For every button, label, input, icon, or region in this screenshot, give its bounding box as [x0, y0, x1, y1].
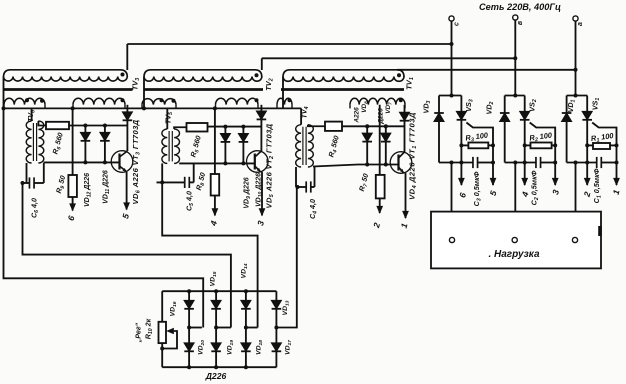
diode VD_19 (bottom): [211, 343, 221, 351]
resistor R_6 560: [46, 122, 69, 129]
label TV2: [264, 78, 275, 90]
svg-text:Сеть 220В, 400Гц: Сеть 220В, 400Гц: [479, 2, 561, 12]
wire gate resistor right VS2 block: [552, 144, 556, 146]
resistor R_3 100: [468, 143, 488, 149]
node branch 2 mid: [214, 326, 218, 330]
transformer ТV4: [296, 125, 314, 167]
wire top bar VS1 block: [567, 95, 588, 97]
node branch 2 top: [214, 289, 218, 293]
label VD_1: [566, 99, 577, 112]
wire stub 5 VS3 block: [490, 163, 497, 187]
label R_5 560: [188, 135, 204, 159]
node stub 2 VS1 block: [585, 161, 589, 165]
wire base m1: [44, 161, 120, 163]
wire VD_10 branch: [242, 127, 244, 164]
label output 3: [255, 219, 266, 226]
node VS2 block resistor right: [553, 143, 557, 147]
label Нагрузка: [488, 249, 540, 260]
wire feed vertical m3: [379, 105, 381, 175]
label VD_8 А226: [354, 101, 369, 124]
label VD_18: [256, 340, 265, 355]
label output 5: [120, 212, 131, 219]
core TV3: [3, 88, 133, 91]
wire route B (m2 cap to network branch3): [162, 182, 257, 327]
wire cathode branch VS3 block: [460, 96, 462, 163]
node VD_9 top: [223, 125, 227, 129]
diode VD_7|Д226: [381, 133, 391, 141]
label VD_20: [198, 340, 207, 355]
wire VD_9 branch: [224, 127, 226, 164]
transformer ТV6: [26, 121, 44, 163]
node VD_10 bottom: [241, 161, 245, 165]
wire stub 2 VS1 block: [584, 163, 591, 187]
wire ТV6 left coil to rail: [31, 108, 33, 121]
wire load drop VS1 block: [575, 163, 577, 238]
transformer ТV5: [162, 129, 180, 163]
node VD_10 top: [241, 125, 245, 129]
resistor R_8 50: [211, 174, 220, 196]
label R_4 560: [326, 135, 342, 159]
label VD_12 Д226: [84, 173, 93, 207]
diode VD_1: [562, 113, 572, 121]
wire ТV5 left coil to rail: [166, 108, 168, 129]
TV3 primary polarity dot: [121, 73, 125, 77]
TV1 primary polarity dot: [397, 73, 401, 77]
svg-text:Д226: Д226: [378, 108, 385, 125]
wire gate VS1 block: [592, 123, 616, 146]
node VS2 block resistor left: [523, 143, 527, 147]
transformer TV3 primary winding: [4, 70, 128, 81]
TV3 secondary winding a: [4, 98, 45, 108]
node branch 1 bottom: [187, 365, 191, 369]
wire emitter output 3 m2: [259, 172, 266, 217]
label VD_14: [241, 263, 250, 278]
wire capacitor run m1: [23, 182, 44, 184]
wire ТV5 right coil to R_5: [174, 127, 186, 129]
node m1 cap junction: [21, 181, 25, 185]
diode VD_2: [500, 113, 510, 121]
wire diode row top m1: [69, 125, 127, 127]
label R_1 100: [590, 131, 615, 145]
label VD_19: [227, 340, 236, 355]
wire output 6 m1: [69, 197, 76, 212]
node phase junction VS1 block: [574, 94, 578, 98]
label output 2: [371, 221, 382, 229]
wire anode branch VS2 block: [504, 96, 506, 163]
wire output 4 m2: [212, 196, 219, 217]
capacitor С_1 0,5мкФ: [597, 157, 602, 168]
wire riser m1: [43, 163, 45, 183]
label VD_9 Д226: [244, 177, 253, 208]
node VD_11 top: [103, 124, 107, 128]
wire diode row top m3: [342, 125, 405, 127]
wire diode row top m2: [208, 126, 262, 128]
R10 wiper: [162, 328, 177, 349]
wire route D (m3 cap to network branch4): [276, 187, 296, 328]
label VD_3: [422, 100, 433, 113]
label VD_2: [485, 101, 496, 114]
node branch 3 bottom: [244, 365, 248, 369]
node VD_11 bottom: [103, 160, 107, 164]
label stub 6: [457, 191, 468, 198]
capacitor С_6 4,0: [29, 177, 34, 188]
diode VD5 (collector): [257, 111, 267, 119]
TV1 secondary a polarity dot: [288, 98, 292, 102]
label ТV4: [300, 106, 311, 118]
wire gate VS3 block: [466, 123, 493, 146]
wire stub 3 VS2 block: [552, 163, 559, 187]
label VS_2: [528, 99, 539, 112]
svg-text:а: а: [577, 22, 584, 26]
node junction A: [574, 68, 578, 72]
load terminal C: [449, 237, 454, 242]
label VD_7 Д226: [378, 102, 393, 125]
wire anode branch VS1 block: [566, 96, 568, 163]
wire bottom bar VS2 block: [505, 162, 556, 164]
wire route C (TV3 primary left to network branch1): [4, 77, 204, 328]
wire collector branch m2: [260, 105, 262, 151]
label С_6 4,0: [30, 198, 41, 218]
resistor R_7 50: [376, 175, 385, 199]
wire network left edge upper: [161, 291, 163, 322]
capacitor С_5 4,0: [185, 177, 190, 188]
label VD_13: [282, 300, 291, 315]
wire capacitor run m2: [157, 181, 194, 183]
label VS_3: [464, 99, 475, 112]
node stub 1 VS1 block: [615, 161, 619, 165]
label VD_11 Д226: [103, 170, 112, 204]
TV1 secondary b polarity dot: [399, 98, 403, 102]
node phase junction VS3 block: [450, 94, 454, 98]
capacitor С_3 0,5мкФ: [473, 157, 478, 168]
potentiometer R10 2к: [159, 322, 167, 343]
transformer TV2 primary winding: [144, 70, 262, 81]
wire capacitor run m3: [298, 186, 315, 188]
label С_3 0,5мкФ: [472, 171, 483, 206]
core TV1: [281, 88, 404, 91]
diode VD4 (collector): [400, 112, 410, 120]
node stub 6 VS3 block: [459, 161, 463, 165]
wire top bar VS3 block: [439, 95, 461, 97]
node stub 5 VS3 block: [491, 161, 495, 165]
label output 1: [399, 222, 410, 229]
wire network branch 3: [245, 291, 247, 367]
wire stub 1 VS1 block: [613, 163, 620, 187]
diode VD_12 Д226: [81, 133, 91, 141]
label ТV5: [164, 112, 175, 124]
wire network bottom rail: [162, 366, 276, 368]
wire load drop VS3 block: [451, 163, 453, 238]
wire cathode branch VS1 block: [586, 96, 588, 163]
label stub 4: [519, 190, 530, 198]
wire cathode branch VS2 block: [524, 96, 526, 163]
wire phase B vertical: [514, 20, 516, 96]
node junction C: [450, 42, 454, 46]
diode VD_20 (bottom): [184, 343, 194, 351]
wire stub 4 VS2 block: [521, 163, 528, 187]
wire riser m2: [193, 163, 195, 182]
node load drop VS1 block: [574, 161, 578, 165]
node stub 4 VS2 block: [523, 161, 527, 165]
node VD_12 top: [83, 124, 87, 128]
label stub 5: [488, 189, 499, 196]
label output 4: [208, 219, 219, 227]
node VS3 block resistor right: [491, 143, 495, 147]
node VD_12 bottom: [83, 160, 87, 164]
wire branch 1 tap: [189, 327, 202, 329]
wire base m3: [313, 165, 399, 167]
node VD_8|А226 top: [365, 124, 369, 128]
node VD_7|Д226 top: [384, 124, 388, 128]
label С_2 0,5мкФ: [530, 170, 541, 205]
wire collector branch m3: [404, 105, 406, 152]
label R_3 100: [465, 130, 490, 144]
resistor R_9 50: [68, 175, 77, 197]
svg-text:. Нагрузка: . Нагрузка: [488, 249, 540, 260]
node branch 3 mid: [244, 326, 248, 330]
wire TV2 primary left end down: [143, 77, 145, 108]
node VD_7|Д226 bottom: [384, 163, 388, 167]
wire riser m2: [161, 163, 163, 182]
label VD_16: [170, 301, 179, 316]
wire feed vertical m1: [72, 108, 74, 175]
wire TV3 primary to phase C: [127, 44, 451, 70]
TV2 secondary b polarity dot: [255, 98, 259, 102]
wire gate resistor right VS1 block: [610, 144, 617, 146]
transistor VT m2: [246, 151, 268, 173]
load terminal B: [512, 237, 517, 242]
wire branch 3 tap: [246, 327, 258, 329]
TV3 secondary winding b: [73, 98, 125, 108]
load terminal A: [572, 237, 577, 242]
node stub 3 VS2 block: [553, 161, 557, 165]
wire gate VS2 block: [530, 123, 556, 146]
wire gate resistor left VS2 block: [525, 144, 531, 146]
wire network top rail: [162, 290, 276, 292]
TV2 secondary winding a: [142, 99, 176, 109]
label Рег: [134, 322, 143, 343]
TV2 secondary a center tap dot: [160, 98, 164, 102]
terminal B: [513, 15, 524, 25]
label VD_15: [210, 271, 219, 286]
resistor R_1 100: [593, 143, 610, 149]
label stub 2: [581, 190, 592, 198]
wire gate resistor left VS1 block: [587, 144, 593, 146]
wire load drop VS2 block: [514, 163, 516, 238]
node VS1 block resistor right: [615, 143, 619, 147]
wire route A (m1 cap to network branch2): [23, 183, 231, 328]
wire TV1 primary left end down: [282, 77, 284, 108]
node VD_9 bottom: [223, 161, 227, 165]
label R10 2к: [144, 318, 155, 339]
node rail TV2 primary return: [142, 106, 146, 110]
terminal C: [449, 16, 461, 26]
label R_7 50: [357, 172, 372, 192]
node branch 1 top: [187, 289, 191, 293]
node rail left end: [2, 106, 6, 110]
node m2 rail feed: [213, 106, 217, 110]
thyristor VS_1: [582, 112, 592, 120]
label С_4 4,0: [308, 199, 319, 219]
label VD_17: [285, 340, 294, 355]
wire ТV6 right coil to R_6: [38, 121, 46, 126]
wire anode branch VS3 block: [438, 96, 440, 163]
title: Сеть 220В, 400Гц: [479, 2, 561, 12]
wire ТV4 right coil to R_4: [308, 125, 325, 127]
wire emitter output 1 m3: [402, 173, 409, 219]
wire emitter output 5 m1: [123, 172, 130, 211]
TV1 secondary winding a: [277, 98, 292, 108]
wire bottom bar VS3 block: [439, 162, 493, 164]
resistor R_5 560: [187, 123, 208, 132]
label VD5 А226 VT2 ГТ703Д: [265, 123, 276, 208]
label TV1: [405, 77, 416, 90]
label С_1 0,5мкФ: [592, 168, 603, 203]
wire network left edge lower: [161, 343, 163, 367]
label R_6 560: [50, 132, 66, 156]
wire riser m1: [26, 163, 28, 183]
wire bottom bar VS1 block: [567, 162, 617, 164]
wire gate resistor right VS3 block: [488, 144, 493, 146]
label R_8 50: [194, 171, 209, 191]
wire VD_12 branch: [84, 126, 86, 163]
label VD_10 Д226: [256, 173, 265, 207]
label С_5 4,0: [185, 191, 196, 211]
label output 6: [66, 214, 77, 221]
wire VD_7|Д226 branch: [385, 126, 387, 164]
resistor R_4 560: [325, 122, 342, 131]
wire top bar VS2 block: [505, 95, 525, 97]
wire riser m3: [295, 167, 297, 187]
label TV3: [131, 78, 142, 90]
thyristor VS_2: [520, 112, 530, 120]
transistor VT m3: [390, 152, 412, 174]
terminal A: [573, 16, 584, 26]
node branch 3 top: [244, 289, 248, 293]
TV1 secondary winding b: [350, 98, 405, 108]
TV3 secondary b polarity dot: [121, 98, 125, 102]
thyristor VS_3: [457, 112, 467, 120]
TV2 secondary a end dot: [172, 99, 176, 103]
diode VD_13 (top): [272, 301, 282, 309]
label stub 1: [611, 188, 622, 195]
svg-text:А226: А226: [354, 107, 361, 124]
resistor R_2 100: [531, 143, 552, 149]
wire common rail: [4, 107, 302, 109]
load box Нагрузка: [431, 212, 601, 269]
node VS1 block resistor left: [585, 143, 589, 147]
wire TV1 primary to phase A: [397, 69, 576, 71]
wire phase A vertical: [575, 21, 577, 96]
svg-text:с: с: [454, 22, 461, 26]
load box right edge tick: [598, 226, 602, 236]
diode VD_3: [434, 113, 444, 121]
transistor VT m1: [111, 151, 133, 173]
diode VD_14 (top): [241, 301, 251, 309]
wire base m2: [179, 162, 255, 164]
node m3 cap junction: [296, 185, 300, 189]
wire VD_11 branch: [104, 126, 106, 163]
wire gate node down VS3 block: [492, 145, 494, 162]
wire output 2 m3: [376, 198, 383, 214]
core TV2: [144, 88, 263, 91]
wire gate node down VS1 block: [616, 145, 618, 162]
label Д226: [205, 371, 227, 381]
node load drop VS3 block: [450, 161, 454, 165]
label R_2 100: [529, 130, 554, 144]
label VD6 А226 VT3 ГТ703Д: [131, 119, 142, 204]
transformer TV1 primary winding: [283, 70, 404, 82]
label R_9 50: [54, 174, 69, 194]
diode VD_11 Д226: [100, 133, 110, 141]
node load drop VS2 block: [513, 161, 517, 165]
node m2 cap junction: [160, 180, 164, 184]
wire network branch 1: [188, 291, 190, 367]
diode VD_18 (bottom): [241, 343, 251, 351]
diode VD_17 (bottom): [272, 343, 282, 351]
label VD4 Д226 VT1 ГТ703Д: [408, 112, 419, 200]
wire branch 2 tap: [216, 327, 231, 329]
node VD_8|А226 bottom: [365, 163, 369, 167]
TV3 secondary a end dot: [40, 99, 44, 103]
node phase junction VS2 block: [513, 94, 517, 98]
diode VD_15 (top): [211, 301, 221, 309]
TV2 primary polarity dot: [255, 73, 259, 77]
node junction B: [513, 56, 517, 60]
node R10 wiper junction: [160, 347, 164, 351]
wire network branch 2: [215, 291, 217, 367]
capacitor С_2 0,5мкФ: [536, 157, 541, 168]
TV3 secondary a center tap dot: [25, 98, 29, 102]
label VS_1: [591, 98, 602, 111]
label ТV6: [26, 110, 37, 122]
TV2 secondary winding b: [216, 98, 259, 108]
node VS3 block resistor left: [459, 143, 463, 147]
wire collector branch m1: [126, 105, 128, 151]
wire network branch 4: [275, 291, 277, 367]
wire TV2 primary to phase B: [262, 58, 516, 70]
wire VD_8|А226 branch: [366, 126, 368, 164]
diode VD6 (collector): [123, 112, 133, 120]
node branch 2 bottom: [214, 365, 218, 369]
diode VD_10 Д226: [239, 134, 249, 142]
wire riser m3: [314, 167, 316, 187]
diode VD_8|А226: [362, 133, 372, 141]
capacitor С_4 4,0: [306, 181, 311, 192]
svg-text:„Рег“: „Рег“: [134, 322, 143, 343]
svg-text:Д226: Д226: [205, 371, 227, 381]
diode VD_9 Д226: [221, 134, 231, 142]
wire feed vertical m2: [214, 108, 216, 174]
wire gate resistor left VS3 block: [461, 144, 468, 146]
node branch 4 mid: [274, 326, 278, 330]
wire gate node down VS2 block: [554, 145, 556, 162]
wire ТV4 left coil to rail: [300, 108, 302, 124]
node m1 rail feed: [71, 106, 75, 110]
diode VD_16 (top): [184, 301, 194, 309]
label stub 3: [550, 188, 561, 195]
wire stub 6 VS3 block: [458, 163, 465, 187]
wire phase C vertical: [451, 21, 453, 96]
node branch 1 mid: [187, 326, 191, 330]
